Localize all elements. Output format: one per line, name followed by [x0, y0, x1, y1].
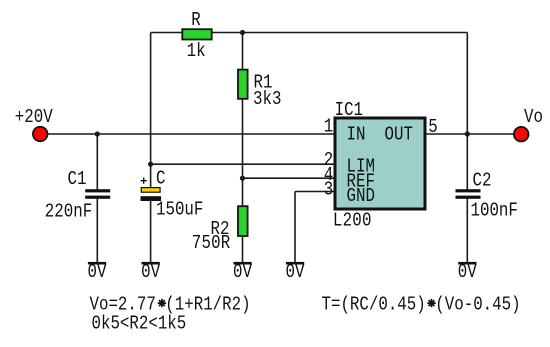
svg-text:C2: C2: [473, 170, 492, 192]
svg-text:GND: GND: [347, 186, 375, 208]
ground C1: [88, 262, 107, 284]
capacitor C2: [456, 189, 481, 192]
svg-text:0V: 0V: [88, 262, 107, 284]
terminal +20V: [33, 127, 48, 142]
ground pin3: [286, 262, 305, 284]
wire output rail pin5: [425, 133, 515, 135]
node junction dot C on LIM line: [148, 162, 153, 167]
ground R2: [233, 262, 252, 284]
svg-text:0V: 0V: [458, 262, 477, 284]
wire R1 top lead from top rail: [242, 33, 244, 70]
svg-text:Vo: Vo: [524, 107, 543, 129]
wire C electrolytic lower lead: [150, 201, 152, 263]
wire C1 upper lead: [96, 134, 98, 190]
wire pin3 ground vertical: [294, 192, 296, 263]
svg-text:220nF: 220nF: [45, 201, 92, 223]
wire top rail: [151, 32, 468, 34]
wire main input rail: [47, 133, 335, 135]
formula T: [322, 294, 521, 316]
capacitor C1: [85, 189, 110, 192]
node junction dot output rail: [465, 131, 470, 136]
wire right vertical from top rail: [466, 33, 468, 135]
svg-text:T=(RC/0.45): T=(RC/0.45): [322, 294, 426, 316]
svg-text:L200: L200: [333, 210, 372, 232]
wire C2 upper lead: [466, 134, 468, 190]
svg-text:1: 1: [324, 116, 333, 138]
svg-text:0V: 0V: [141, 262, 160, 284]
node junction dot C1 on input rail: [95, 131, 100, 136]
svg-text:C1: C1: [68, 169, 87, 191]
svg-text:0V: 0V: [233, 262, 252, 284]
resistor R2: [238, 206, 248, 236]
wire pin3 GND line: [295, 191, 335, 193]
svg-text:1k: 1k: [187, 41, 206, 63]
svg-text:C: C: [156, 168, 165, 190]
svg-text:(Vo-0.45): (Vo-0.45): [435, 294, 520, 316]
svg-text:R: R: [191, 10, 201, 32]
capacitor C electrolytic: [141, 188, 160, 193]
svg-text:3k3: 3k3: [253, 89, 281, 111]
ground C2: [458, 262, 477, 284]
wire R1-R2 middle vertical: [242, 100, 244, 206]
wire C2 lower lead: [466, 198, 468, 263]
svg-text:0k5<R2<1k5: 0k5<R2<1k5: [92, 313, 187, 335]
svg-text:150uF: 150uF: [156, 199, 203, 221]
svg-text:750R: 750R: [192, 232, 231, 254]
wire C electrolytic upper lead: [150, 164, 152, 188]
svg-text:IN: IN: [347, 124, 366, 146]
svg-text:100nF: 100nF: [471, 200, 518, 222]
ground C: [141, 262, 160, 284]
svg-text:OUT: OUT: [385, 124, 413, 146]
svg-text:0V: 0V: [286, 262, 305, 284]
node junction dot R1/R2 on REF line: [240, 176, 245, 181]
svg-text:5: 5: [428, 117, 437, 139]
svg-text:IC1: IC1: [335, 100, 363, 122]
formula Vo: [90, 294, 251, 316]
resistor R1: [238, 70, 248, 99]
wire left vertical (LIM branch): [150, 33, 152, 165]
svg-text:3: 3: [324, 179, 333, 201]
wire R2 bottom lead: [242, 237, 244, 263]
node junction dot R1 on top rail: [240, 30, 245, 35]
wire C1 lower lead: [96, 199, 98, 263]
wire pin2 LIM line: [151, 163, 335, 165]
op-amp U1 : IC1 L200 regulator box: [335, 118, 425, 209]
wire pin4 REF line: [243, 177, 336, 179]
resistor R: [182, 29, 211, 39]
svg-text:+20V: +20V: [15, 107, 53, 129]
terminal Vo: [514, 127, 529, 142]
